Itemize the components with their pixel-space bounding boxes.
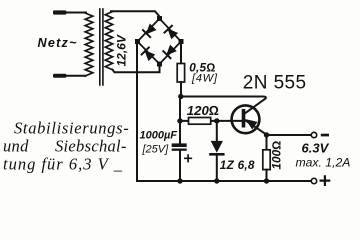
zener diode 1Z6,8 <box>211 141 224 154</box>
terminal minus circle <box>311 132 316 137</box>
svg-text:Stabilisierungs-: Stabilisierungs- <box>14 119 129 138</box>
svg-text:1000µF: 1000µF <box>140 129 178 141</box>
diode D1 top-left <box>143 24 156 37</box>
transistor Q1 emitter arrow <box>246 120 256 129</box>
node emitter junction <box>264 132 269 137</box>
diode D4 bottom-right <box>163 46 176 59</box>
terminal plus circle <box>311 178 316 183</box>
wire R1 to node A <box>180 82 182 97</box>
capacitor C1 bottom plate <box>172 149 187 151</box>
svg-text:100Ω: 100Ω <box>270 141 284 170</box>
wire mains top to primary <box>65 12 86 14</box>
node capacitor on rail <box>177 178 182 183</box>
plus rail wire <box>137 180 311 182</box>
svg-text:2N 555: 2N 555 <box>243 73 307 94</box>
transformer core <box>100 9 103 85</box>
svg-text:[25V]: [25V] <box>142 143 170 155</box>
wire negative rail to collector <box>181 97 266 114</box>
svg-text:tung für 6,3 V _: tung für 6,3 V _ <box>3 155 123 174</box>
svg-text:Siebschal-: Siebschal- <box>55 137 127 156</box>
wire node C to zener <box>216 121 218 141</box>
svg-text:max. 1,2A: max. 1,2A <box>296 156 351 170</box>
resistor R1 0,5 ohm body <box>177 64 184 83</box>
node A junction <box>178 94 183 99</box>
wire emitter to minus terminal <box>267 134 312 136</box>
resistor R3 100 ohm body <box>266 135 268 150</box>
svg-text:[4W]: [4W] <box>191 72 218 84</box>
wire 120 ohm / base <box>180 120 242 122</box>
wire bridge right corner down to R1 <box>180 42 182 64</box>
diode D2 top-right <box>165 26 178 39</box>
mains terminal stub bottom <box>53 74 67 78</box>
transistor Q1 base bar <box>242 109 246 128</box>
transistor Q1 circle <box>232 105 260 133</box>
node R3 on rail <box>264 178 269 183</box>
transformer T1 primary winding <box>85 13 93 76</box>
minus sign <box>321 134 329 137</box>
node bridge right <box>179 39 184 44</box>
transformer T1 secondary winding <box>105 12 112 70</box>
wire mains bottom to primary <box>65 75 86 77</box>
wire capacitor to plus rail <box>179 151 181 181</box>
wire zener to plus rail <box>216 156 218 182</box>
svg-text:6.3V: 6.3V <box>302 141 330 156</box>
resistor R2 120 ohm body <box>189 118 211 125</box>
node zener on rail <box>214 178 219 183</box>
svg-text:Netz~: Netz~ <box>38 36 78 50</box>
wire R3 to plus rail <box>266 170 268 181</box>
transistor Q1 emitter <box>246 121 267 135</box>
svg-text:und: und <box>3 137 29 156</box>
svg-text:1Z 6,8: 1Z 6,8 <box>220 158 255 172</box>
bridge rectifier diamond wire <box>138 19 182 65</box>
node bridge bottom <box>157 62 162 67</box>
wire node A down to capacitor <box>179 97 181 144</box>
svg-text:120Ω: 120Ω <box>187 103 219 118</box>
wire bridge left corner down to plus rail <box>136 42 138 182</box>
wire secondary top to bridge top <box>111 11 160 16</box>
wire secondary bottom to bridge bottom <box>113 64 160 72</box>
mains terminal stub top <box>53 10 67 14</box>
svg-text:12,6V: 12,6V <box>115 34 129 66</box>
diode D3 bottom-left <box>142 48 155 61</box>
node B junction <box>177 118 182 123</box>
node bridge top <box>157 16 162 21</box>
node C junction <box>214 118 219 123</box>
plus sign <box>321 176 330 185</box>
capacitor plus polarity mark <box>185 155 191 161</box>
capacitor C1 top plate <box>172 143 187 147</box>
node bridge left <box>135 39 140 44</box>
